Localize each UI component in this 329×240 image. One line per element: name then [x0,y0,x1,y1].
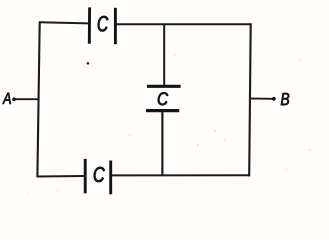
wire terminal B lead [250,98,273,100]
node B terminal dot [272,97,276,101]
wire middle branch upper [163,24,165,85]
wire bottom-right segment [112,174,250,176]
node B label [281,93,289,105]
value label C (top capacitor) [98,16,108,32]
capacitor C3 (bottom branch) [85,159,111,195]
node A label [2,93,10,104]
capacitor C2 (middle branch) [146,86,181,110]
wire top-left segment [40,22,89,23]
node A terminal dot [12,98,16,102]
value label C (middle capacitor) [158,92,168,105]
wire left vertical [37,22,39,176]
value label C (bottom capacitor) [94,167,105,182]
wire top-right segment [116,23,251,25]
wire bottom-left segment [37,175,85,178]
wire right vertical [249,24,251,175]
capacitor C1 (top branch) [89,7,115,44]
wire terminal A lead [16,98,39,100]
wire middle branch lower [161,111,163,176]
